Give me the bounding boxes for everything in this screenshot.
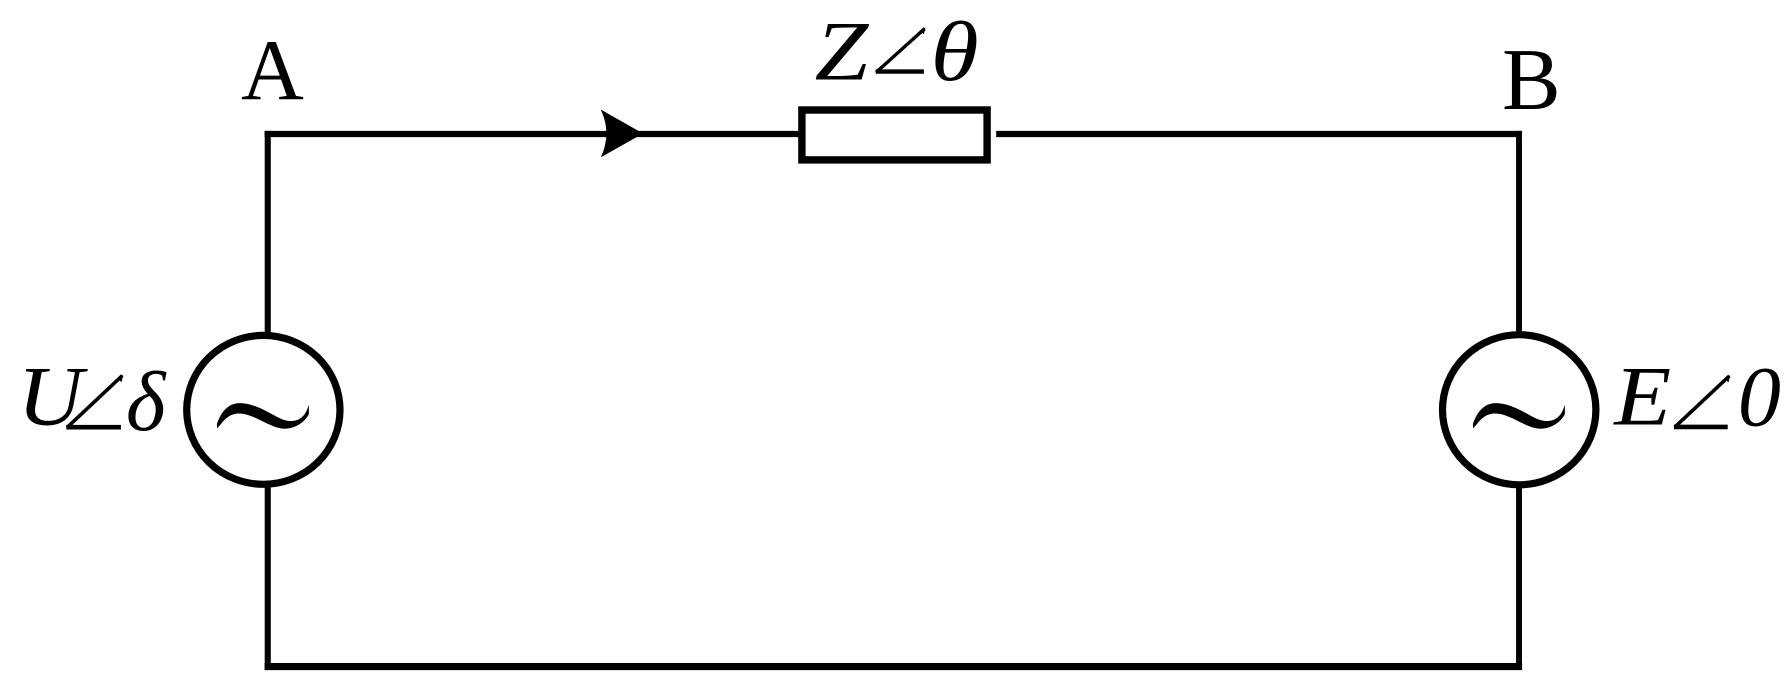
svg-text:δ: δ [126, 355, 167, 449]
svg-text:U: U [18, 350, 88, 444]
label delta [126, 355, 167, 449]
svg-text:A: A [241, 22, 304, 119]
svg-text:B: B [1502, 32, 1561, 129]
wire right B to source E [1516, 131, 1522, 670]
label theta [931, 5, 979, 99]
resistor Z (impedance box) [802, 110, 987, 160]
label U [18, 350, 88, 444]
svg-text:θ: θ [931, 5, 979, 99]
sine wave symbol in right source [1473, 403, 1565, 429]
svg-text:0: 0 [1738, 348, 1781, 444]
label E [1613, 350, 1671, 444]
angle symbol of Z label [876, 27, 926, 72]
wire bottom [265, 663, 1523, 670]
node A label [241, 22, 304, 119]
sine wave symbol in left source [217, 403, 309, 429]
wire top A to impedance box [265, 131, 800, 137]
wire top impedance box to B [996, 131, 1522, 137]
svg-text:E: E [1613, 350, 1671, 444]
svg-text:Z: Z [815, 5, 869, 99]
AC source E (right circle) [1443, 335, 1596, 485]
AC source U (left circle) [187, 335, 340, 484]
angle symbol of E label [1674, 375, 1730, 427]
arrow current direction on top wire [601, 110, 643, 158]
label 0 [1738, 348, 1781, 444]
node B label [1502, 32, 1561, 129]
wire left A to source U [265, 131, 271, 670]
angle symbol of U label [66, 375, 123, 428]
label Z [815, 5, 869, 99]
